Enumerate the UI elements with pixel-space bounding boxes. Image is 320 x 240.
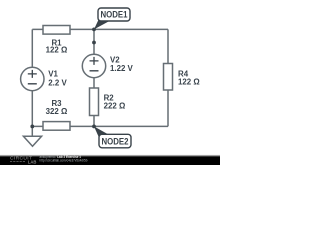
svg-text:NODE1: NODE1 [101,10,129,21]
svg-text:LAB: LAB [28,160,37,165]
svg-text:122 Ω: 122 Ω [178,78,200,87]
svg-text:122 Ω: 122 Ω [46,46,68,55]
svg-text:2.2 V: 2.2 V [48,79,67,88]
svg-text:http://circuitlab.com/c4e37v5s: http://circuitlab.com/c4e37v5s4dr5b [40,159,88,163]
svg-text:222 Ω: 222 Ω [104,102,126,111]
svg-text:1.22 V: 1.22 V [110,64,134,73]
svg-text:V1: V1 [48,70,58,79]
svg-text:NODE2: NODE2 [102,136,129,147]
svg-text:322 Ω: 322 Ω [46,107,68,116]
